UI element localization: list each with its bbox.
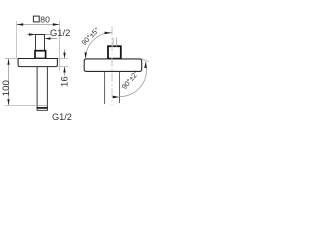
dimension square symbol [33,16,39,22]
collar front view [35,51,46,59]
plate side view [84,59,142,72]
pipe front view [37,67,47,106]
dimension square-80 arrow right [53,23,60,25]
label G1/2 top leader line [45,38,57,40]
pipe side view left edge [104,72,106,104]
pipe end fitting thick ring [37,107,48,109]
label G1/2 top leader arrow [45,37,51,39]
centre line side view [111,27,113,106]
angle 90deg2 arrow bottom [113,96,120,99]
dimension 16 extension line bottom [58,66,68,68]
dimension 100 extension line top [5,58,17,60]
stub thread dimension line [27,34,52,36]
dimension 16 arrow top [63,53,65,59]
dimension 100 line [8,59,10,106]
dimension square-80 line [17,24,60,26]
svg-text:G1/2: G1/2 [52,112,72,122]
dimension square-80 extension line right [59,21,61,71]
angle 90deg2 arc [120,62,147,97]
pipe side view right edge [119,72,121,103]
pipe end fitting front view [37,104,47,106]
dimension 16 extension line top [58,58,68,60]
svg-text:100: 100 [1,80,12,96]
angle 90deg5 arrow bottom [85,52,87,58]
svg-text:80: 80 [40,14,50,24]
angle 90deg5 arc [86,33,113,60]
angle 90deg2 arrow top [144,61,146,68]
dimension square-80 arrow left [17,23,24,25]
angle 90deg2 extension line [142,59,149,62]
stub thread stub front view [35,35,45,51]
dimension 100 arrow bottom [7,99,9,105]
svg-text:G1/2: G1/2 [50,27,70,38]
dimension 100 extension line bottom [5,105,37,107]
stub thread dimension arrow left [29,33,36,35]
dimension 16 line top segment [64,50,66,59]
stub hidden edges side view [113,38,116,47]
svg-text:16: 16 [59,76,70,87]
dimension 16 arrow bottom [63,67,65,73]
nub side view [108,46,121,59]
dimension 16 line bottom segment [64,67,66,76]
plate front view [18,59,57,67]
dimension square-80 extension line left [16,21,18,58]
angle 90deg5 arrow top [105,32,112,34]
dimension 100 arrow top [7,59,9,65]
